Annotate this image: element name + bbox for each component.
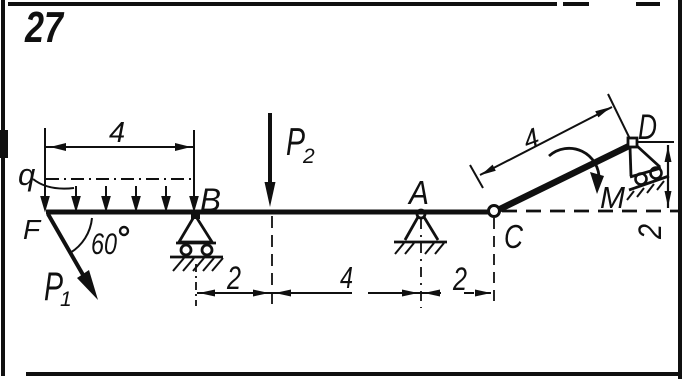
support D base line xyxy=(630,168,661,177)
svg-text:F: F xyxy=(23,214,42,245)
force P2 arrow xyxy=(268,113,272,195)
svg-text:27: 27 xyxy=(24,3,65,52)
bottom dimension arrowheads at A line xyxy=(402,290,418,297)
support A hatching xyxy=(395,243,444,254)
svg-text:M: M xyxy=(600,180,625,215)
svg-text:2: 2 xyxy=(226,260,241,296)
support B roller: apex xyxy=(191,211,200,219)
svg-text:1: 1 xyxy=(60,288,72,311)
support B base line xyxy=(176,242,216,245)
dimension 4 top: extension line above B with load arrow xyxy=(193,130,195,203)
svg-text:q: q xyxy=(18,157,36,192)
svg-text:C: C xyxy=(504,218,524,255)
extension line D to right dimension xyxy=(637,141,674,143)
beam F-C xyxy=(46,210,497,215)
svg-text:2: 2 xyxy=(302,145,315,168)
svg-text:2: 2 xyxy=(632,224,668,240)
incline dimension extension line at D end xyxy=(608,94,630,139)
support A centerline xyxy=(420,219,422,308)
support B triangle xyxy=(179,215,212,242)
dimension line 4 (F to B) xyxy=(46,146,194,148)
support A pin circle xyxy=(417,210,425,218)
svg-text:B: B xyxy=(200,182,221,218)
support B hatching xyxy=(173,258,223,271)
support B rollers xyxy=(181,245,191,255)
svg-text:4: 4 xyxy=(340,260,353,295)
bottom dimension arrowheads at P2 line xyxy=(253,290,269,297)
60 degree angle arc xyxy=(70,218,92,253)
svg-text:4: 4 xyxy=(109,117,125,149)
incline dimension arrowhead at D end xyxy=(595,107,611,117)
distributed load q dash-dot line xyxy=(46,178,196,180)
support D ground line xyxy=(629,176,669,190)
bottom dimension arrowhead at C line xyxy=(475,290,491,297)
support A ground line xyxy=(394,241,447,244)
border frame left xyxy=(1,0,5,376)
q leader curve xyxy=(33,179,74,189)
right vertical dimension line 2 xyxy=(667,145,669,208)
force P1 arrow xyxy=(48,214,90,287)
incline dimension arrowhead at C end xyxy=(481,165,496,175)
distributed load arrows xyxy=(42,180,198,209)
joint D square xyxy=(628,138,637,147)
support D triangle left side xyxy=(630,147,631,176)
svg-text:60: 60 xyxy=(91,228,117,261)
P2 centerline below beam xyxy=(271,216,273,306)
support D hatching xyxy=(627,181,664,200)
support B centerline xyxy=(195,264,197,306)
svg-text:2: 2 xyxy=(452,261,467,297)
moment M arc xyxy=(549,148,599,180)
pin C circle xyxy=(489,206,500,217)
incline dimension extension tick at C end xyxy=(470,165,483,188)
support D rollers xyxy=(636,174,647,185)
dashed line C to right border xyxy=(502,210,679,213)
border frame bottom xyxy=(26,372,682,376)
bottom dimension line xyxy=(197,292,491,294)
bottom dimension arrowheads at B xyxy=(199,290,215,297)
C centerline below xyxy=(493,218,495,304)
support D triangle right side xyxy=(637,146,660,167)
support B ground line xyxy=(170,256,223,259)
beam C-D xyxy=(494,144,633,212)
incline dimension line 4 (C..D) xyxy=(480,107,612,175)
border frame top xyxy=(8,2,660,6)
dimension 4 top: extension line above F with load arrow xyxy=(44,128,46,203)
svg-text:A: A xyxy=(407,174,429,211)
support A triangle legs xyxy=(405,217,438,240)
border frame right xyxy=(678,0,682,379)
moment M arrowhead xyxy=(590,172,604,194)
